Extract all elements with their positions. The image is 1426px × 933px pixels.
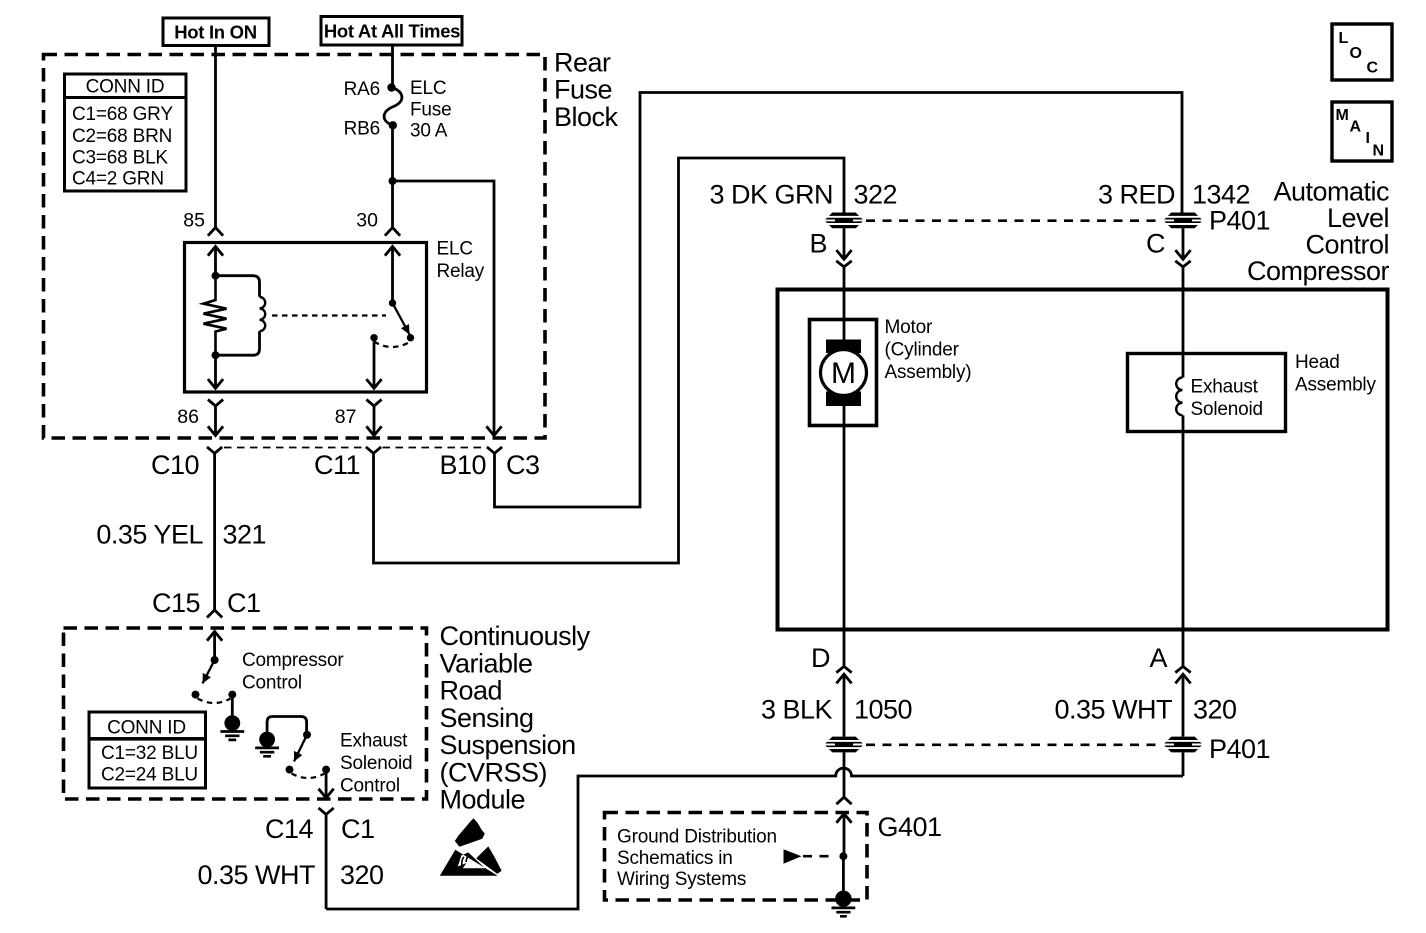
- relay pin 87 wire: [373, 342, 376, 380]
- connector B10 / C3 chevron: [487, 447, 502, 453]
- exhaust control dashed arc: [292, 774, 325, 779]
- splice lens C: [1163, 213, 1202, 229]
- power feed box "Hot In ON": [163, 18, 269, 46]
- svg-text:Exhaust: Exhaust: [340, 731, 408, 752]
- compressor control pivot: [211, 656, 219, 664]
- svg-text:3 DK GRN: 3 DK GRN: [709, 180, 833, 210]
- reference triangle pointer: [784, 849, 802, 863]
- ground distribution dashed box: [605, 813, 868, 901]
- svg-text:Control: Control: [340, 776, 400, 797]
- wire 1342 path: C3 down, across, up, to C: [495, 93, 1183, 508]
- relay pin 86 terminal arrow: [214, 355, 217, 388]
- svg-text:Module: Module: [440, 785, 526, 815]
- LOC reference box: [1332, 24, 1392, 80]
- pin 86 connector chevron: [208, 400, 223, 407]
- svg-text:P401: P401: [1209, 206, 1270, 236]
- svg-text:A: A: [1350, 119, 1362, 136]
- solenoid coil: [1176, 378, 1182, 416]
- svg-text:30: 30: [356, 210, 378, 232]
- svg-text:CONN ID: CONN ID: [86, 77, 165, 98]
- connector C10 chevron: [207, 447, 222, 453]
- exhaust control contacts: [286, 766, 294, 774]
- splice lens B: [824, 213, 863, 229]
- compressor control driver: terminal arrow: [207, 632, 222, 641]
- ground symbol G401: [835, 891, 851, 907]
- wire: motor to D: [843, 426, 846, 630]
- arrow out of fuse block (86): [208, 426, 223, 435]
- svg-text:Block: Block: [554, 102, 619, 132]
- svg-text:85: 85: [183, 210, 205, 232]
- svg-text:0.35 YEL: 0.35 YEL: [96, 520, 203, 550]
- arrow into G401 box: [836, 814, 851, 823]
- svg-text:ELC: ELC: [410, 78, 446, 99]
- svg-text:Control: Control: [1305, 230, 1389, 260]
- svg-text:(CVRSS): (CVRSS): [440, 757, 548, 787]
- MAIN reference box: [1332, 102, 1392, 161]
- svg-text:0.35 WHT: 0.35 WHT: [1054, 695, 1172, 725]
- svg-text:Variable: Variable: [440, 648, 533, 678]
- svg-text:RB6: RB6: [344, 119, 380, 140]
- ELC fuse RA6 terminal dot: [387, 83, 395, 91]
- svg-text:Fuse: Fuse: [554, 75, 612, 105]
- motor M1 outline: [810, 320, 877, 426]
- power feed box "Hot At All Times": [321, 17, 462, 46]
- svg-text:Head: Head: [1295, 352, 1340, 373]
- connector C14 chevron: [319, 808, 334, 815]
- svg-text:Assembly): Assembly): [885, 362, 972, 383]
- svg-text:C1: C1: [341, 814, 375, 844]
- wire to ground G401: [842, 856, 845, 891]
- svg-text:(Cylinder: (Cylinder: [885, 340, 960, 361]
- ELC fuse RB6 terminal dot: [389, 121, 397, 129]
- exhaust control output wire + terminal arrow: [325, 770, 328, 790]
- svg-text:C2=68 BRN: C2=68 BRN: [72, 126, 172, 147]
- svg-text:1050: 1050: [854, 695, 912, 725]
- motor brush bottom: [826, 392, 861, 407]
- svg-text:Level: Level: [1327, 203, 1389, 233]
- relay actuation dashed link: [272, 314, 386, 316]
- exhaust control pivot: [303, 731, 311, 739]
- svg-text:Rear: Rear: [554, 48, 611, 78]
- svg-text:Motor: Motor: [885, 317, 933, 338]
- relay coil branch node (top): [212, 272, 220, 280]
- svg-text:C: C: [1367, 60, 1379, 77]
- inline connector dashed link D-A: [866, 743, 1161, 746]
- CVRSS dashed boundary: [64, 628, 427, 799]
- wire below P401 to return path: [1182, 752, 1185, 776]
- svg-text:Compressor: Compressor: [242, 650, 344, 671]
- Rear Fuse Block dashed boundary: [44, 55, 546, 439]
- relay pin 85 terminal arrow: [208, 247, 223, 256]
- svg-text:86: 86: [177, 406, 199, 428]
- svg-text:322: 322: [854, 180, 898, 210]
- wire: junction to B10: [393, 181, 495, 427]
- ESD sensitivity symbol: [455, 818, 485, 847]
- svg-text:B10: B10: [439, 450, 486, 480]
- connector C15 chevron: [207, 610, 222, 618]
- wire below lens to G401: [843, 752, 846, 796]
- svg-text:87: 87: [335, 406, 357, 428]
- svg-text:Suspension: Suspension: [440, 730, 576, 760]
- svg-text:Fuse: Fuse: [410, 100, 451, 121]
- arrow into B10: [486, 426, 501, 435]
- dashed link to ground wire: [803, 855, 836, 858]
- svg-text:Control: Control: [242, 673, 302, 694]
- svg-text:Automatic: Automatic: [1273, 177, 1389, 207]
- svg-text:320: 320: [340, 860, 384, 890]
- svg-text:Hot At All Times: Hot At All Times: [324, 21, 460, 42]
- svg-text:A: A: [1149, 643, 1167, 673]
- svg-text:P401: P401: [1209, 734, 1270, 764]
- svg-text:Sensing: Sensing: [440, 703, 534, 733]
- relay switch contacts: [370, 334, 377, 341]
- svg-text:RA6: RA6: [344, 79, 380, 100]
- svg-text:B: B: [809, 229, 827, 259]
- svg-text:ELC: ELC: [437, 239, 473, 260]
- relay coil (parallel branch): [216, 276, 260, 297]
- ELC fuse element (S-curve): [384, 88, 402, 126]
- relay contact dashed arc: [374, 342, 411, 348]
- junction node (fuse output): [389, 177, 397, 185]
- wire: Hot In ON to ELC relay pin 85: [214, 46, 217, 228]
- wire: Hot At All Times to ELC fuse: [391, 45, 394, 88]
- wire to ground (compressor control): [231, 695, 234, 716]
- svg-text:Relay: Relay: [437, 261, 485, 282]
- svg-text:Assembly: Assembly: [1295, 375, 1376, 396]
- svg-text:C11: C11: [314, 450, 360, 480]
- connector C11 chevron: [366, 447, 381, 453]
- connector G401 chevron: [836, 797, 851, 804]
- arrow out of fuse block (87): [366, 426, 381, 435]
- svg-text:C1: C1: [227, 588, 261, 618]
- svg-text:Compressor: Compressor: [1247, 256, 1390, 286]
- svg-text:C3: C3: [506, 450, 540, 480]
- svg-text:321: 321: [223, 520, 267, 550]
- svg-text:N: N: [1373, 143, 1385, 160]
- svg-text:Exhaust: Exhaust: [1191, 377, 1259, 398]
- ground (compressor control): [224, 715, 240, 731]
- splice lens P401: [1163, 737, 1202, 753]
- svg-text:C14: C14: [265, 814, 314, 844]
- connector chevron pin 30: [385, 228, 400, 236]
- splice lens 3BLK: [824, 737, 863, 753]
- relay switch arm: [393, 303, 410, 335]
- svg-text:Road: Road: [440, 676, 503, 706]
- svg-text:I: I: [1366, 130, 1370, 147]
- motor brush top: [826, 340, 861, 354]
- motor circle M: [821, 350, 867, 396]
- svg-text:C1=68 GRY: C1=68 GRY: [72, 104, 173, 125]
- relay resistor: [204, 276, 227, 356]
- compressor control contacts: [192, 691, 200, 699]
- svg-text:Hot In ON: Hot In ON: [174, 22, 257, 43]
- svg-text:M: M: [831, 357, 856, 390]
- svg-text:C3=68 BLK: C3=68 BLK: [72, 148, 168, 169]
- svg-text:Solenoid: Solenoid: [1191, 399, 1263, 420]
- svg-text:3 BLK: 3 BLK: [761, 695, 833, 725]
- wire: solenoid to A: [1182, 432, 1185, 630]
- svg-text:CONN ID: CONN ID: [107, 718, 186, 739]
- wire 0.35 YEL 321: C10 to CVRSS C15: [213, 453, 216, 609]
- svg-text:C1=32 BLU: C1=32 BLU: [101, 743, 198, 764]
- head assembly solenoid box: [1128, 354, 1286, 432]
- svg-text:G401: G401: [878, 812, 942, 842]
- svg-text:320: 320: [1193, 695, 1237, 725]
- wire into solenoid: [1182, 354, 1185, 378]
- wire: fuse to relay pin 30: [391, 125, 394, 227]
- connector chevron pin 85: [208, 228, 223, 236]
- connector B arrow + chevron: [843, 228, 846, 259]
- connector D chevron + arrow: [843, 630, 846, 667]
- svg-text:C: C: [1146, 229, 1165, 259]
- svg-text:L: L: [1339, 30, 1349, 47]
- svg-text:C2=24 BLU: C2=24 BLU: [101, 765, 198, 786]
- svg-text:Continuously: Continuously: [440, 621, 591, 651]
- motor wire through: [843, 320, 846, 354]
- compressor outline box: [778, 290, 1388, 630]
- connector C arrow + chevron: [1182, 228, 1185, 259]
- relay switch pivot: [389, 299, 396, 306]
- wire 322 path: C11 down, across, up, to B: [374, 158, 845, 563]
- junction dot on ground wire: [839, 852, 847, 860]
- svg-text:D: D: [811, 643, 830, 673]
- exhaust driver bracket: [267, 717, 307, 732]
- svg-text:0.35 WHT: 0.35 WHT: [197, 860, 315, 890]
- relay pin 30 terminal arrow: [385, 247, 400, 256]
- exhaust control switch arm: [294, 735, 307, 762]
- svg-text:Ground Distribution: Ground Distribution: [617, 827, 777, 848]
- wire B into compressor: [843, 267, 846, 320]
- svg-text:C4=2 GRN: C4=2 GRN: [72, 169, 164, 190]
- svg-text:30 A: 30 A: [410, 121, 448, 142]
- svg-text:O: O: [1350, 45, 1362, 62]
- connector row thin dashed line: [224, 447, 486, 449]
- svg-text:Wiring Systems: Wiring Systems: [617, 869, 746, 890]
- CONN ID table (rear fuse block): [65, 74, 187, 191]
- wire: P401 return to CVRSS C14 (with hop): [326, 768, 1183, 909]
- svg-text:Schematics in: Schematics in: [617, 848, 733, 869]
- svg-text:C15: C15: [152, 588, 200, 618]
- wire C into compressor: [1182, 267, 1185, 354]
- compressor control dashed arc: [198, 699, 231, 704]
- CONN ID table (CVRSS): [89, 712, 206, 788]
- exhaust solenoid driver ground: [259, 732, 275, 748]
- svg-text:M: M: [1336, 107, 1349, 124]
- pin 87 connector chevron: [366, 400, 381, 407]
- compressor control switch arm: [203, 660, 215, 684]
- svg-text:3 RED: 3 RED: [1098, 180, 1175, 210]
- svg-text:C10: C10: [151, 450, 199, 480]
- relay coil branch node (bottom): [212, 351, 220, 359]
- ELC relay box: [185, 243, 427, 393]
- svg-text:Solenoid: Solenoid: [340, 753, 412, 774]
- inline connector dashed link B-C: [866, 219, 1161, 222]
